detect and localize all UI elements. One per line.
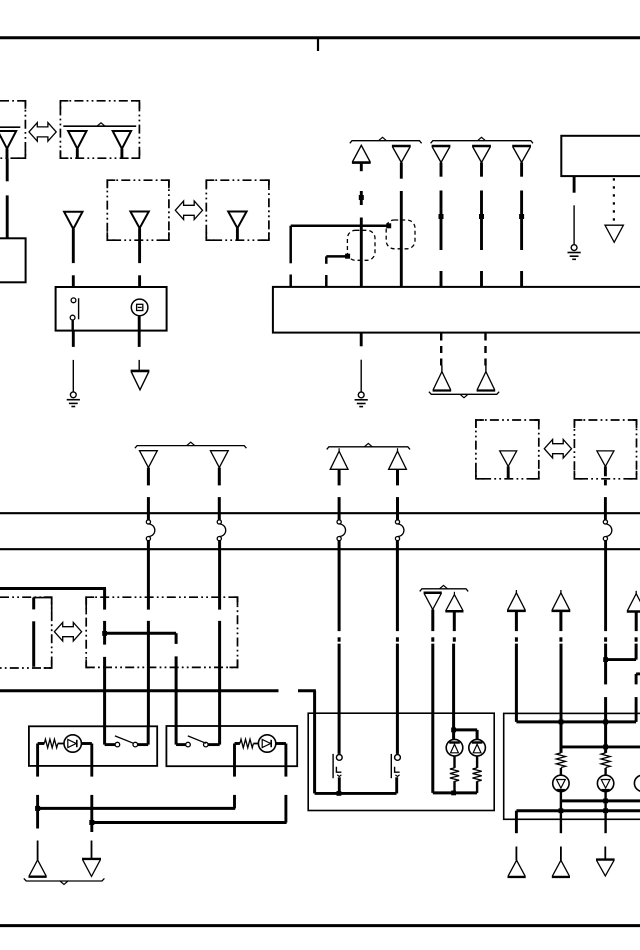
wire ECU to ground: [360, 333, 363, 393]
control box G: [308, 713, 494, 810]
switch-lamp component box: [56, 287, 167, 331]
connector housing box D5 (dash-dot): [476, 420, 539, 479]
connector F3: [432, 146, 451, 177]
crossover jog D2: [217, 520, 226, 541]
overline group B1: [350, 137, 422, 143]
switch SW-F1: [105, 726, 149, 747]
wire to connector FB: [90, 823, 93, 859]
wire to connector HA: [515, 847, 517, 861]
connector pin A4-1: [130, 212, 148, 229]
connector D4 (male triangle): [389, 448, 407, 469]
connector pin D5-1: [500, 451, 517, 479]
wire R4 to rail: [476, 781, 478, 793]
ground G3: [568, 245, 581, 260]
ground rail A: [315, 792, 397, 795]
crossover jog D1: [146, 520, 155, 541]
junction dot LED feed: [451, 728, 456, 733]
E1 terminal tab: [33, 597, 52, 613]
overline group D-left: [135, 442, 247, 448]
connector H2 (male triangle): [552, 590, 571, 631]
lamp L1: [131, 299, 148, 316]
junction dot Ht1: [559, 720, 564, 725]
connector pin A1-1 (female triangle): [0, 131, 16, 158]
E2 corner piece: [85, 597, 87, 613]
F1 left lead: [38, 744, 45, 766]
crossover jog D3: [337, 520, 346, 541]
cross rail RL1: [38, 807, 236, 810]
connector H3 (male triangle): [627, 591, 640, 631]
LED LD2: [469, 739, 486, 756]
switch SW-G1: [333, 754, 342, 794]
underline connector pair F: [24, 878, 105, 884]
overline in A1: [0, 126, 20, 128]
component box C1: [561, 136, 640, 176]
switch SW-F2: [176, 726, 220, 747]
junction dot Hr2a: [559, 808, 564, 813]
wire to connector FA: [36, 808, 39, 860]
connector pin A2-2: [113, 131, 131, 158]
mating arrow A: [29, 123, 56, 142]
resistor R1: [44, 739, 58, 748]
splice dot on F3 wire: [439, 214, 444, 219]
wire F3 to ECU: [440, 191, 443, 288]
connector D1 (female triangle): [140, 451, 158, 468]
resistor R3: [450, 768, 459, 782]
connector F2 (female triangle): [392, 146, 411, 179]
F1 right stub below: [90, 766, 93, 823]
connector housing box A4 (dash-dot): [107, 180, 169, 240]
connector H1 (male triangle): [507, 590, 526, 631]
crossover jog D6: [603, 520, 612, 541]
wire F4 to ECU: [480, 191, 483, 288]
wire bus5 down: [604, 541, 607, 631]
connector pin A5-1: [228, 212, 246, 241]
mating arrow D: [544, 439, 571, 458]
wire A4 to switch box: [138, 228, 141, 299]
diode D1: [64, 735, 81, 752]
switch S1 blade: [73, 298, 79, 330]
connector D2 (female triangle): [210, 451, 228, 468]
junction dot H3: [603, 657, 608, 662]
connector T3 (female triangle): [64, 212, 82, 229]
wire R2 to D2: [253, 743, 258, 745]
ground rail H1: [561, 790, 640, 801]
wire G1 to rail B: [431, 644, 434, 793]
crossover jog D4: [395, 520, 404, 541]
connector G1 (female triangle): [424, 593, 442, 631]
connector F4: [472, 146, 491, 177]
resistor R4: [473, 768, 482, 782]
dashed wire to shield 1: [440, 334, 442, 366]
wire branch h2: [326, 256, 347, 287]
wire R3 to rail: [453, 781, 455, 793]
overline group G: [420, 585, 469, 591]
connector housing box D6 (dash-dot): [574, 420, 636, 479]
wire C1 to ground: [573, 176, 576, 245]
junction dot Ht2: [603, 720, 608, 725]
lamp LP2: [597, 768, 613, 792]
wire L1 down: [138, 316, 141, 370]
connector triangle FA (male up): [29, 860, 47, 877]
junction dot Hr1: [603, 799, 608, 804]
LED LD1: [446, 739, 463, 756]
harness wire W2 feed: [0, 691, 316, 794]
ECU box U1: [273, 287, 640, 333]
connector triangle HB (male up): [552, 860, 570, 877]
F2 left stub below: [233, 766, 236, 808]
branch wire W1 to F2: [105, 633, 177, 726]
lamp box H: [504, 713, 640, 819]
junction dot rail A: [337, 791, 342, 796]
actuator box F2: [166, 726, 297, 766]
inline connector dashes H: [516, 637, 636, 641]
LED branch top: [454, 730, 478, 742]
wire LP1 down: [604, 790, 606, 833]
F2 right stub below: [284, 766, 287, 822]
wire T3 to switch box: [72, 229, 75, 298]
bus wire row 1: [0, 512, 640, 514]
wire bus5 lower: [604, 644, 607, 753]
resistor R2: [240, 739, 254, 748]
wire R1 to D1: [58, 743, 64, 745]
connector F5: [512, 146, 531, 177]
lamp LP1: [553, 768, 569, 792]
wire bus3 down: [338, 541, 341, 754]
noise-filter loop E2 (dashed): [386, 220, 415, 249]
ground rail B: [433, 791, 477, 794]
top border rule: [0, 38, 640, 51]
ground G2: [355, 392, 368, 407]
mating arrow E: [54, 622, 81, 641]
connector triangle FB (female down): [82, 859, 101, 877]
junction dot Hm: [603, 745, 608, 750]
wire W1 through E2: [103, 621, 106, 726]
connector housing box A5 (dash-dot): [206, 180, 269, 240]
mating arrow B: [175, 201, 202, 220]
wire from A1 down: [6, 158, 9, 238]
splice dot on M1 wire: [359, 195, 364, 200]
wire H3 to junction: [606, 644, 637, 660]
cross rail RL2: [92, 821, 287, 824]
junction dot RL2: [89, 820, 94, 825]
wire F5 to ECU: [520, 191, 523, 288]
bus wire 2 through E2: [218, 541, 221, 726]
wire H1 into box: [515, 644, 518, 722]
wire to connector HC: [604, 847, 606, 860]
harness wire W1 feed: [0, 589, 106, 610]
junction dot W1: [102, 631, 107, 636]
F2 right lead: [276, 744, 286, 767]
switch S1 contacts: [70, 298, 76, 320]
wire bus4 down: [396, 541, 399, 754]
bus wire row 2: [0, 548, 640, 550]
wire D3 to bus: [338, 469, 341, 520]
wire to connector HB: [560, 847, 562, 861]
wire D6 to bus: [604, 466, 607, 520]
wire from right edge: [636, 674, 640, 722]
wire H2 into box: [560, 644, 563, 753]
connector housing box E2 (dash-dot): [86, 597, 237, 667]
inline connector dashes G: [339, 637, 454, 641]
splice dot on F4 wire: [479, 214, 484, 219]
junction dot h1: [386, 223, 391, 228]
junction dot Hr2b: [603, 808, 608, 813]
wire F2 to ECU: [400, 191, 403, 288]
wire LP2 down: [560, 801, 562, 833]
wire LD2 to resistor: [476, 756, 478, 768]
overline group B2: [431, 137, 533, 143]
component box A3: [0, 238, 26, 282]
wire D1 to bus: [147, 468, 150, 520]
wire D4 to bus: [396, 469, 399, 520]
feed rail H-mid: [561, 745, 640, 748]
bottom border rule: [0, 924, 640, 927]
ground rail H2: [516, 811, 640, 834]
connector triangle HA (male up): [508, 860, 526, 877]
diode D2: [258, 735, 275, 752]
junction dot h2: [345, 254, 350, 259]
splice dot on F5 wire: [519, 214, 524, 219]
bus wire 1 through E2: [147, 541, 150, 727]
F1 left stub below: [36, 766, 39, 809]
wire S1 to ground: [72, 331, 75, 392]
connector housing box A1 (dash-dot): [0, 101, 25, 158]
connector triangle C (female): [605, 225, 623, 242]
wire branch h1: [291, 226, 389, 288]
E1 terminal pin: [32, 621, 35, 667]
overline group D-right: [327, 443, 410, 449]
connector triangle below L1: [131, 371, 150, 390]
connector pin D6-1: [597, 451, 614, 467]
wire LD1 to resistor: [453, 756, 455, 768]
wire M1 to ECU: [360, 191, 363, 288]
connector D3 (male triangle): [330, 448, 348, 469]
wire to LED pair: [452, 644, 455, 743]
connector G2 (male triangle): [445, 592, 463, 631]
junction dot RL1: [35, 806, 40, 811]
junction dot rail B: [451, 791, 456, 796]
F2 left lead: [235, 744, 240, 767]
underline shield group: [429, 392, 499, 398]
resistor R5: [556, 753, 565, 768]
shield triangle S2 (male up): [477, 366, 496, 391]
switch SW-G2: [391, 754, 400, 794]
connector triangle HC (female down): [596, 860, 615, 876]
overline in A2: [63, 123, 136, 126]
connector pin A2-1: [68, 131, 86, 158]
dotted wire C1: [613, 178, 615, 221]
dashed wire to shield 2: [484, 334, 486, 366]
F1 right lead: [81, 744, 91, 766]
lamp LP3 (clipped): [634, 775, 640, 791]
actuator box F1: [29, 726, 157, 766]
connector M1 (male triangle): [352, 145, 371, 171]
noise-filter loop E1 (dashed): [347, 230, 375, 260]
shield triangle S1 (male up): [433, 366, 452, 391]
feed rail H-top: [516, 720, 636, 723]
connector housing box E1 (dash-dot): [0, 597, 52, 668]
resistor R6: [601, 753, 610, 768]
connector housing box A2 (dash-dot): [60, 101, 139, 158]
wire D2 to bus: [218, 468, 221, 520]
ground G1: [67, 392, 80, 407]
